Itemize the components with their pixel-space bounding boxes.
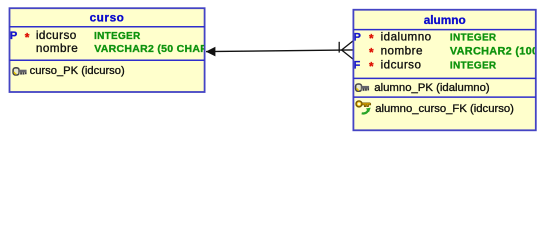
crow's foot legs: [342, 41, 354, 60]
svg-text:idalumno: idalumno: [381, 30, 432, 43]
svg-text:curso: curso: [90, 11, 125, 25]
svg-text:P: P: [353, 31, 361, 43]
curso keys separator: [10, 59, 205, 61]
svg-text:VARCHAR2 (100 CHAR): VARCHAR2 (100 CHAR): [450, 46, 547, 58]
arrowhead toward curso: [206, 47, 216, 57]
svg-text:nombre: nombre: [381, 45, 423, 58]
svg-text:idcurso: idcurso: [381, 59, 422, 72]
curso header separator: [10, 26, 205, 28]
svg-text:*: *: [369, 46, 374, 60]
svg-text:P: P: [10, 30, 18, 42]
svg-text:INTEGER: INTEGER: [94, 31, 141, 42]
svg-text:alumno: alumno: [424, 13, 466, 27]
svg-text:VARCHAR2 (50 CHAR): VARCHAR2 (50 CHAR): [94, 43, 212, 55]
alumno keys separator: [353, 77, 535, 79]
svg-text:nombre: nombre: [36, 42, 78, 55]
alumno_curso_FK key icon: [356, 101, 371, 114]
svg-text:INTEGER: INTEGER: [450, 32, 497, 43]
wire relation curso-alumno: [206, 50, 353, 52]
curso_PK key icon: [13, 68, 27, 75]
table curso: [10, 8, 205, 92]
table alumno: [353, 10, 535, 131]
svg-text:idcurso: idcurso: [36, 29, 77, 42]
alumno_PK key icon: [356, 84, 370, 91]
svg-text:alumno_curso_FK (idcurso): alumno_curso_FK (idcurso): [375, 103, 514, 115]
svg-text:*: *: [369, 60, 374, 74]
svg-text:curso_PK (idcurso): curso_PK (idcurso): [30, 65, 125, 77]
svg-text:INTEGER: INTEGER: [450, 61, 497, 72]
svg-text:*: *: [369, 32, 374, 46]
svg-text:*: *: [25, 30, 30, 44]
alumno header separator: [353, 29, 535, 31]
crow's foot bar: [338, 42, 340, 53]
svg-text:alumno_PK (idalumno): alumno_PK (idalumno): [374, 82, 490, 94]
svg-text:F: F: [353, 60, 360, 72]
alumno fk separator: [353, 96, 535, 98]
